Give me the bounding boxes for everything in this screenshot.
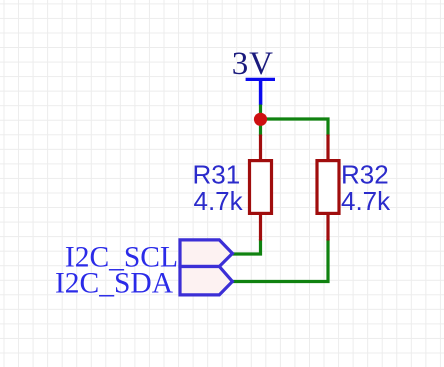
port I2C_SCL shape (180, 240, 232, 267)
resistor R32 lead (326, 135, 329, 241)
svg-text:I2C_SDA: I2C_SDA (55, 268, 174, 300)
resistor R31 body (250, 161, 272, 214)
wire R32 bottom to port I2C_SDA (232, 239, 328, 282)
resistor R31 lead (259, 135, 262, 241)
power bar symbol (246, 78, 275, 81)
junction dot (254, 113, 267, 126)
resistor R32 body (317, 161, 339, 214)
svg-text:3V: 3V (232, 46, 274, 82)
wire stem green from power to node (259, 105, 262, 137)
svg-text:R31: R31 (193, 159, 241, 189)
svg-text:R32: R32 (341, 159, 389, 189)
port I2C_SDA shape (180, 267, 232, 295)
svg-text:4.7k: 4.7k (194, 186, 244, 216)
power vertical stem (259, 79, 263, 105)
wire R31 bottom to port I2C_SCL (232, 239, 260, 254)
wire node to R32 top (261, 119, 329, 136)
svg-text:4.7k: 4.7k (341, 186, 391, 216)
